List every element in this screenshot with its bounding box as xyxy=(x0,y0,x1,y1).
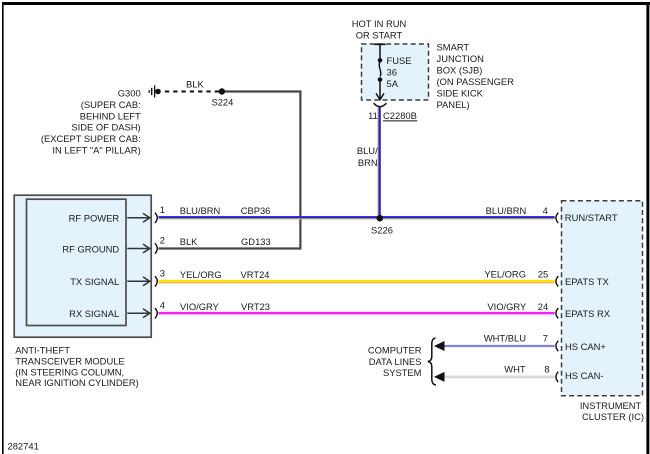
svg-text:WHT/BLU: WHT/BLU xyxy=(484,333,526,344)
svg-text:24: 24 xyxy=(538,301,548,312)
connector pin 1 arc xyxy=(155,213,157,223)
connector label C2280B xyxy=(383,110,417,121)
label G300 block xyxy=(41,88,141,156)
svg-text:COMPUTER: COMPUTER xyxy=(368,345,422,356)
svg-text:SMART: SMART xyxy=(437,41,470,52)
connector pin 8 arc (IC) xyxy=(556,372,558,382)
svg-text:36: 36 xyxy=(387,67,397,78)
svg-text:VRT24: VRT24 xyxy=(241,269,270,280)
wire BLK dashed to G300 xyxy=(161,91,219,93)
svg-text:8: 8 xyxy=(544,364,549,375)
splice S226 xyxy=(377,215,384,222)
svg-text:IN LEFT "A" PILLAR): IN LEFT "A" PILLAR) xyxy=(52,144,140,155)
svg-text:BRN: BRN xyxy=(358,157,378,168)
splice S224 xyxy=(219,88,225,94)
ground G300 xyxy=(149,85,161,97)
instrument cluster box (dashed) xyxy=(562,201,643,396)
svg-text:VIO/GRY: VIO/GRY xyxy=(487,301,527,312)
frame top border xyxy=(2,2,650,5)
svg-text:EPATS RX: EPATS RX xyxy=(565,308,611,319)
svg-text:25: 25 xyxy=(538,268,548,279)
connector pin 3 arc xyxy=(155,276,157,286)
svg-text:VRT23: VRT23 xyxy=(241,301,270,312)
svg-text:PANEL): PANEL) xyxy=(437,99,470,110)
svg-text:RX SIGNAL: RX SIGNAL xyxy=(69,308,119,319)
svg-text:SIDE KICK: SIDE KICK xyxy=(437,87,484,98)
svg-text:DATA LINES: DATA LINES xyxy=(369,356,422,367)
svg-text:4: 4 xyxy=(160,299,165,310)
svg-text:S224: S224 xyxy=(211,97,233,108)
svg-text:C2280B: C2280B xyxy=(383,110,417,121)
svg-text:BOX (SJB): BOX (SJB) xyxy=(437,64,483,75)
svg-text:ANTI-THEFT: ANTI-THEFT xyxy=(15,345,70,356)
connector pin 4 arc xyxy=(155,308,157,318)
anti-theft transceiver module outer box xyxy=(14,195,151,337)
fuse F36 5A xyxy=(374,44,385,99)
svg-text:TX SIGNAL: TX SIGNAL xyxy=(70,276,119,287)
svg-text:BLU/: BLU/ xyxy=(357,145,378,156)
svg-text:4: 4 xyxy=(543,205,548,216)
svg-text:CLUSTER (IC): CLUSTER (IC) xyxy=(582,411,644,422)
arrow RX SIGNAL out xyxy=(127,309,150,318)
svg-text:BEHIND LEFT: BEHIND LEFT xyxy=(80,110,141,121)
svg-text:RUN/START: RUN/START xyxy=(565,212,618,223)
svg-text:CBP36: CBP36 xyxy=(241,205,271,216)
label INSTRUMENT CLUSTER (IC) xyxy=(580,400,644,422)
svg-text:RF POWER: RF POWER xyxy=(69,213,120,224)
svg-text:282741: 282741 xyxy=(8,440,39,451)
svg-text:FUSE: FUSE xyxy=(387,55,412,66)
connector pin 4 arc (IC) xyxy=(556,213,558,223)
svg-text:S226: S226 xyxy=(371,225,393,236)
label ANTI-THEFT block xyxy=(15,345,138,389)
svg-text:5A: 5A xyxy=(387,78,399,89)
arrow WHT/BLU off-page xyxy=(434,341,445,351)
arrow TX SIGNAL out xyxy=(127,277,150,286)
frame left border xyxy=(2,2,4,454)
svg-text:HOT IN RUN: HOT IN RUN xyxy=(352,18,407,29)
anti-theft transceiver module inner box xyxy=(27,199,127,325)
wire VIO/GRY row4 xyxy=(159,312,555,315)
connector pin 7 arc (IC) xyxy=(556,341,558,351)
svg-text:EPATS TX: EPATS TX xyxy=(565,276,610,287)
svg-text:YEL/ORG: YEL/ORG xyxy=(484,268,526,279)
svg-text:YEL/ORG: YEL/ORG xyxy=(180,269,222,280)
svg-text:1: 1 xyxy=(160,204,165,215)
svg-text:OR START: OR START xyxy=(356,30,403,41)
frame right border xyxy=(646,2,649,454)
fuse value labels xyxy=(387,55,412,89)
arrow RF GROUND out xyxy=(127,244,150,253)
svg-text:VIO/GRY: VIO/GRY xyxy=(180,301,220,312)
svg-text:7: 7 xyxy=(543,333,548,344)
svg-text:HS CAN+: HS CAN+ xyxy=(565,341,606,352)
svg-text:(EXCEPT SUPER CAB:: (EXCEPT SUPER CAB: xyxy=(41,133,141,144)
svg-text:(IN STEERING COLUMN,: (IN STEERING COLUMN, xyxy=(15,366,124,377)
svg-text:GD133: GD133 xyxy=(241,236,271,247)
svg-text:BLK: BLK xyxy=(186,79,204,90)
svg-text:BLU/BRN: BLU/BRN xyxy=(180,205,221,216)
svg-text:HS CAN-: HS CAN- xyxy=(565,370,604,381)
wire label BLU/BRN vertical xyxy=(357,145,378,168)
connector pin 2 arc xyxy=(155,243,157,253)
svg-text:RF GROUND: RF GROUND xyxy=(62,243,119,254)
svg-text:INSTRUMENT: INSTRUMENT xyxy=(580,400,642,411)
svg-text:SIDE OF DASH): SIDE OF DASH) xyxy=(71,122,140,133)
svg-text:G300: G300 xyxy=(118,88,141,99)
svg-text:TRANSCEIVER MODULE: TRANSCEIVER MODULE xyxy=(15,355,124,366)
node HOT IN RUN OR START xyxy=(352,18,407,41)
label smart junction box xyxy=(437,41,515,110)
wire BLU/BRN vertical from SJB to S226 xyxy=(377,107,380,218)
connector pin 24 arc (IC) xyxy=(556,308,558,318)
svg-text:BLU/BRN: BLU/BRN xyxy=(486,205,527,216)
svg-text:(ON PASSENGER: (ON PASSENGER xyxy=(437,76,515,87)
arrow WHT off-page xyxy=(434,372,445,382)
svg-text:SYSTEM: SYSTEM xyxy=(383,367,422,378)
svg-text:11: 11 xyxy=(368,110,378,121)
svg-text:3: 3 xyxy=(160,268,165,279)
svg-text:NEAR IGNITION CYLINDER): NEAR IGNITION CYLINDER) xyxy=(15,377,138,388)
wire BLU/BRN row1 xyxy=(159,216,555,219)
wire YEL/ORG row3 xyxy=(159,280,555,283)
wire WHT/BLU to HS CAN+ xyxy=(444,345,555,347)
svg-text:(SUPER CAB:: (SUPER CAB: xyxy=(81,99,141,110)
svg-text:WHT: WHT xyxy=(504,364,526,375)
wire WHT to HS CAN- xyxy=(444,376,555,379)
label COMPUTER DATA LINES SYSTEM xyxy=(368,345,422,379)
connector pin 25 arc (IC) xyxy=(556,276,558,286)
smart junction box SJB (dashed box) xyxy=(362,44,429,100)
svg-text:2: 2 xyxy=(160,235,165,246)
arrow RF POWER out xyxy=(127,213,150,222)
svg-text:JUNCTION: JUNCTION xyxy=(437,53,484,64)
svg-text:BLK: BLK xyxy=(180,236,198,247)
brace computer data lines xyxy=(428,338,436,385)
wire BLK from pin2 to S224 (solid) xyxy=(159,92,301,249)
connector C2280B arc xyxy=(374,103,387,107)
